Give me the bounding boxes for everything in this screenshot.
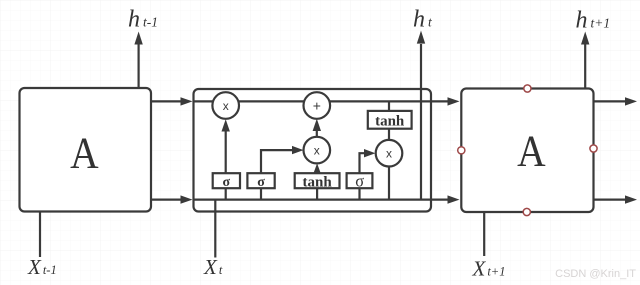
arrowhead x2 to plus xyxy=(313,119,321,131)
op circle x2 xyxy=(304,137,331,164)
svg-text:A: A xyxy=(517,127,546,176)
arrowhead into right A bottom xyxy=(448,195,460,203)
wire: tanh2 to x3 stub xyxy=(388,129,390,140)
gate box sigma2 xyxy=(247,173,274,188)
svg-text:x: x xyxy=(386,147,392,161)
arrowhead into cell top xyxy=(181,97,193,105)
wire h_t vertical xyxy=(420,44,422,200)
gate box sigma1 xyxy=(213,173,240,188)
wire: sigma3 elbow to x3 xyxy=(360,153,366,173)
wire h_t+1 vertical xyxy=(584,45,586,89)
gate box sigma3 xyxy=(347,173,373,188)
wire: sigma1 stub down xyxy=(225,188,227,199)
arrowhead h_t+1 xyxy=(581,32,589,45)
op circle x1 (forget gate multiply) xyxy=(212,92,239,119)
svg-text:tanh: tanh xyxy=(375,113,405,129)
block A (left, t-1) xyxy=(20,88,152,212)
connection point bottom xyxy=(523,208,530,215)
connection point right xyxy=(590,145,597,152)
svg-text:x: x xyxy=(314,144,320,158)
wire X_t+1 vertical xyxy=(483,212,485,256)
svg-text:+: + xyxy=(313,97,321,113)
svg-text:x: x xyxy=(223,99,229,113)
arrowheads xyxy=(134,31,637,204)
arrowhead output right top xyxy=(625,97,637,105)
wire: top line from left A to cell xyxy=(151,100,182,102)
arrowhead into cell bottom xyxy=(181,195,193,203)
wire: bottom output of right A xyxy=(594,199,627,201)
wire: tanh1 to x2 xyxy=(316,171,318,174)
arrowhead into right A top xyxy=(448,97,460,105)
arrowhead tanh1 to x2 xyxy=(313,163,321,174)
svg-text:σ: σ xyxy=(222,175,230,190)
svg-text:σ: σ xyxy=(257,175,265,190)
wire: bottom hidden-state line inside cell, exits to right A xyxy=(194,199,449,201)
wire: tanh1 stub down xyxy=(316,188,318,199)
arrowhead output right bottom xyxy=(625,195,637,203)
connection point top xyxy=(524,85,531,92)
wire: sigma3 stub down xyxy=(358,188,360,199)
wire: top output of right A xyxy=(594,100,627,102)
wire: top line cell to right A xyxy=(431,100,449,102)
arrowhead sigma3 to x3 xyxy=(364,149,375,157)
op circle plus xyxy=(304,92,331,119)
wire X_t vertical xyxy=(214,200,216,258)
svg-text:A: A xyxy=(70,129,99,178)
op circle x3 (output multiply) xyxy=(376,140,403,167)
gate box tanh2 xyxy=(368,111,412,129)
wire: sigma2 stub down xyxy=(260,188,262,199)
wire: top line to tanh2 stub xyxy=(388,101,390,111)
svg-text:σ: σ xyxy=(355,172,364,191)
svg-text:CSDN @Krin_IT: CSDN @Krin_IT xyxy=(555,268,636,280)
arrowhead sigma2 to x2 xyxy=(292,146,304,154)
gate box tanh1 xyxy=(295,173,340,188)
wire: x3 down to bottom line xyxy=(388,167,390,200)
connection point circles on right A xyxy=(458,85,597,216)
svg-text:tanh: tanh xyxy=(303,174,333,190)
connection point left xyxy=(458,147,465,154)
LSTM cell body (center) xyxy=(194,89,432,212)
wire: cell-state top line inside cell xyxy=(194,100,432,102)
arrowhead sigma1 to x1 xyxy=(222,119,230,131)
block A (right, t+1) xyxy=(461,89,593,213)
wire: bottom line from left A to cell xyxy=(151,199,182,201)
wire: x2 to plus arrow line xyxy=(316,131,318,137)
wire X_t-1 vertical xyxy=(39,212,41,258)
arrowhead h_t xyxy=(417,31,425,44)
wire: sigma2 elbow to x2 xyxy=(261,150,293,173)
wire: sigma1 to x1 arrow line xyxy=(225,131,227,174)
arrowhead h_t-1 xyxy=(134,32,142,45)
wire h_t-1 vertical xyxy=(138,45,140,89)
